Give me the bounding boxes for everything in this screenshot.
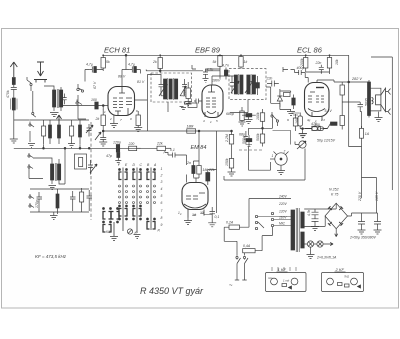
capacitor C28 500p — [242, 135, 252, 147]
wire mains left drop — [224, 227, 237, 256]
band switch wafer numbers — [160, 167, 163, 227]
band switch contacts column2 top — [133, 169, 141, 180]
wire row1 top — [14, 119, 89, 121]
wire FM to grid — [63, 101, 108, 119]
trimmer arrow osc — [90, 164, 97, 173]
resistor R11 on rail — [152, 55, 162, 68]
svg-text:4,7µ: 4,7µ — [86, 63, 93, 67]
svg-text:22k: 22k — [208, 168, 215, 172]
capacitor C23 50u 12/15V — [317, 122, 337, 143]
band switch contacts left column — [103, 208, 119, 232]
output transformer T3 — [365, 80, 374, 118]
svg-text:100k: 100k — [256, 112, 260, 120]
speaker LS1 — [371, 88, 386, 111]
wire AVC long horizontal bus — [14, 147, 157, 149]
svg-text:22n: 22n — [315, 61, 322, 65]
pin labels ECL86 — [307, 118, 326, 123]
capacitor C14 4,7n electrolytic — [222, 64, 229, 80]
capacitor C26 EM84 — [208, 207, 219, 227]
band switch contacts column3 lower — [147, 218, 155, 229]
IFT2 capacitor Ca — [230, 76, 235, 94]
svg-text:220V: 220V — [278, 202, 288, 206]
wire AF line to ECL grid — [249, 119, 289, 170]
connector box 2KF — [322, 273, 364, 292]
ground R27 — [228, 172, 236, 176]
svg-text:1M: 1M — [203, 168, 208, 172]
band switch contacts column1 top — [119, 169, 127, 180]
svg-text:0,1: 0,1 — [170, 148, 175, 152]
wire rail stub left — [84, 70, 86, 82]
svg-text:2: 2 — [283, 150, 286, 154]
svg-text:1 mb: 1 mb — [283, 279, 290, 283]
svg-text:3: 3 — [161, 180, 163, 184]
capacitor C17 detector — [292, 95, 295, 110]
capacitor C34 EBF grid — [194, 99, 202, 104]
capacitor C8 4,7u — [85, 63, 103, 73]
svg-text:2k: 2k — [152, 60, 157, 64]
resistor R27 150k — [225, 145, 234, 173]
svg-text:~: ~ — [229, 283, 233, 289]
diode D1 detector — [277, 91, 282, 107]
wire ECL86 anode — [317, 80, 369, 83]
pin labels EBF89 — [203, 119, 218, 124]
svg-text:0,4A: 0,4A — [243, 244, 251, 248]
connector box 1KF — [266, 273, 307, 292]
oscillator can box R4 — [75, 154, 87, 169]
ground R8 — [134, 128, 142, 132]
resistor R18 — [340, 103, 344, 130]
capacitor C16 22n — [266, 77, 279, 87]
capacitor C19 400p coupling — [291, 66, 309, 83]
wire C18 link — [306, 72, 330, 74]
capacitor C33 50u b — [374, 213, 382, 234]
capacitor C31 HV filter b — [312, 219, 319, 227]
trimmer gang arrow top — [95, 132, 101, 140]
wire heater segment — [166, 147, 172, 149]
capacitor C5 170p — [35, 192, 42, 212]
capacitor C35 FM — [62, 94, 66, 105]
resistor R24 100k — [256, 109, 265, 128]
wire EBF anode to IFT2 — [212, 75, 236, 85]
svg-text:2 h: 2 h — [320, 118, 326, 122]
svg-text:6: 6 — [161, 201, 163, 205]
svg-text:22n: 22n — [266, 77, 273, 81]
svg-text:170p: 170p — [35, 200, 39, 208]
svg-text:18M: 18M — [187, 125, 194, 129]
svg-text:2,2M: 2,2M — [225, 134, 229, 143]
potentiometer P1 volume — [280, 91, 291, 97]
band switch stem column2 — [136, 168, 138, 234]
oscillator switch contact S3 — [28, 153, 33, 158]
detector line vertical — [266, 87, 271, 103]
resistor R13 on rail EBF — [239, 55, 248, 68]
capacitor C18 22n — [315, 61, 324, 74]
svg-text:N 252: N 252 — [329, 188, 339, 192]
svg-text:500k: 500k — [256, 133, 260, 141]
wire top B+ rail — [103, 55, 362, 146]
IFT2 coil b — [247, 74, 256, 95]
svg-text:5k: 5k — [213, 60, 217, 64]
capacitor C15 680p — [237, 110, 243, 112]
contact K2 — [76, 100, 82, 105]
wire lamps — [304, 243, 333, 246]
wire detector joins — [271, 89, 291, 110]
tube ECL86 U3 — [305, 83, 330, 121]
svg-text:185 V: 185 V — [375, 191, 379, 201]
capacitor C2 grid 120p — [91, 98, 98, 109]
svg-text:2×6,3V/0,1A: 2×6,3V/0,1A — [316, 256, 337, 260]
svg-text:220: 220 — [128, 142, 135, 146]
svg-text:81 V: 81 V — [137, 80, 145, 84]
svg-text:7kΩ: 7kΩ — [344, 275, 350, 279]
wire to output transformer secondary — [360, 112, 361, 129]
speaker terminal b — [386, 109, 391, 115]
row3 box switch contact S5 — [29, 194, 34, 199]
fuse F3 0,4A — [243, 236, 262, 256]
band switch stem column3 — [150, 168, 152, 231]
svg-text:2 KF: 2 KF — [335, 267, 345, 272]
band switch stem column1 — [122, 168, 124, 232]
lamp E2 — [317, 241, 323, 247]
svg-text:14: 14 — [193, 213, 197, 217]
capacitor C12 47n — [106, 153, 121, 165]
tube EM84 U4 — [182, 183, 208, 218]
ground detector — [287, 109, 295, 116]
tuning row1 box left : switch contact S2 — [29, 122, 34, 143]
mains plug — [229, 270, 247, 290]
resistor R30 100k grid EBF — [183, 82, 191, 102]
IFT1 capacitor Ca — [159, 79, 166, 96]
IFT2 coil a — [234, 74, 243, 95]
dash link volume — [239, 149, 263, 151]
resistor R10 22k — [156, 142, 166, 151]
IFT1 coil b — [174, 78, 178, 100]
capacitor C6 — [70, 191, 76, 211]
wire HV to bridge — [304, 203, 336, 226]
ground lamps — [307, 247, 315, 258]
capacitor C21 feedback — [342, 102, 363, 112]
resistor R6 on rail — [101, 55, 110, 71]
band switch column2 ground — [134, 235, 141, 239]
FM band switch contact S1a — [27, 77, 36, 117]
speaker terminal a — [386, 89, 391, 95]
svg-text:500p: 500p — [242, 136, 246, 144]
band switch rotor mark — [127, 229, 137, 235]
wire row3 top and bottom — [30, 189, 89, 212]
resistor R8 screen — [136, 111, 140, 128]
capacitor C32 50u a — [358, 213, 366, 234]
resistor R15 200k on rail — [300, 55, 308, 72]
FM input transformer T1 — [44, 86, 63, 111]
resistor R3 — [70, 120, 74, 144]
svg-text:ECL 86: ECL 86 — [297, 46, 323, 55]
capacitor C11 120p on AVC bus — [113, 141, 121, 153]
IFT1 coil a — [164, 78, 173, 100]
svg-text:KF = 473,5 kHz: KF = 473,5 kHz — [35, 254, 67, 259]
capacitor C29 68p — [239, 131, 248, 145]
ground left column — [10, 139, 18, 143]
svg-text:100: 100 — [91, 98, 97, 102]
IFT2 trimmer arrows — [231, 81, 239, 93]
band switch wafer letters — [118, 163, 157, 167]
svg-text:240V: 240V — [278, 195, 288, 199]
ground HV filter — [311, 227, 319, 231]
svg-text:mic: mic — [268, 276, 273, 280]
IF transformer IFT2 dashed box — [229, 69, 266, 100]
svg-text:180V: 180V — [212, 79, 221, 83]
lamp E1 — [307, 241, 313, 247]
svg-text:120p: 120p — [113, 141, 121, 145]
ground R19 — [299, 129, 307, 138]
resistor R21 18M — [187, 125, 196, 134]
tube ECH81 U1 — [108, 87, 135, 116]
resistor R12 on rail EBF — [213, 56, 223, 71]
svg-text:88 V: 88 V — [118, 75, 126, 79]
resistor R9 220 — [128, 142, 141, 151]
svg-text:4g: 4g — [307, 118, 311, 122]
capacitor C13 4,7n — [203, 68, 220, 79]
resistor R22 1M — [197, 161, 208, 178]
coil L6 — [56, 189, 59, 214]
wire AF return bus — [224, 149, 305, 181]
svg-text:0,1: 0,1 — [215, 215, 220, 219]
ground C27 — [245, 117, 253, 124]
tone switch S7 — [271, 112, 279, 126]
IFT2 capacitor Cb — [256, 76, 260, 95]
svg-text:2: 2 — [160, 174, 163, 178]
svg-text:8: 8 — [161, 216, 163, 220]
svg-text:67 V: 67 V — [93, 81, 97, 89]
band switch contacts column3 top — [147, 169, 155, 180]
svg-text:2: 2 — [109, 117, 112, 121]
svg-text:220 V: 220 V — [358, 191, 362, 202]
svg-text:470k: 470k — [6, 90, 10, 98]
svg-text:680p: 680p — [226, 112, 234, 116]
resistor R19 cathode ECL — [295, 113, 302, 129]
bridge rectifier D2-D5 — [325, 203, 348, 229]
fuse F1 1A — [360, 126, 370, 198]
row3 switch contact S6 — [29, 203, 34, 208]
ground IFT1 — [180, 104, 189, 110]
ground R30 — [185, 102, 193, 106]
ground speaker — [375, 112, 383, 122]
band switch left stem ground — [110, 222, 118, 241]
svg-text:4,7n: 4,7n — [222, 64, 229, 68]
svg-text:68p: 68p — [239, 133, 245, 137]
wire 185V drop — [362, 178, 377, 214]
ground jack J1 — [299, 134, 307, 138]
svg-text:2k: 2k — [95, 117, 100, 121]
antenna AM A1 — [10, 62, 17, 77]
svg-text:1k: 1k — [244, 60, 248, 64]
IF transformer IFT1 dashed box — [151, 73, 192, 102]
capacitor C30 HV filter a — [307, 209, 319, 219]
svg-text:ECH 81: ECH 81 — [104, 46, 130, 55]
junction dots rail — [102, 54, 330, 56]
wire IFT1 top to rail — [146, 69, 203, 74]
svg-text:12: 12 — [201, 211, 205, 215]
capacitor C3 trimmer — [86, 124, 93, 137]
svg-text:1A: 1A — [365, 132, 370, 136]
oscillator coil T2 — [33, 148, 65, 184]
wire J2 to tone — [273, 131, 291, 145]
svg-text:282 V: 282 V — [351, 77, 362, 81]
svg-text:EBF 89: EBF 89 — [195, 46, 221, 55]
resistor R14 cathode EBF — [239, 107, 246, 126]
voltage selector contacts — [249, 199, 291, 236]
resistor R20a cathode bias — [300, 123, 327, 131]
wire screen EBF — [192, 65, 220, 79]
resistor R25 1M tone — [292, 113, 300, 131]
svg-text:400p: 400p — [297, 66, 305, 70]
ground row1 b — [68, 144, 75, 148]
svg-text:MIC: MIC — [279, 222, 286, 226]
pickup jack J1 — [295, 141, 306, 149]
svg-text:10k: 10k — [335, 59, 339, 65]
svg-text:50µ 12/15V: 50µ 12/15V — [317, 139, 336, 143]
coil L2 ferrite — [11, 98, 18, 139]
ground FM transformer — [50, 113, 59, 117]
coil L3 — [49, 120, 52, 144]
wire right-edge vertical net — [371, 57, 392, 190]
transformer tap labels — [278, 195, 288, 226]
wire IFT2 bottom out — [230, 100, 248, 113]
capacitor C9 4,7u — [126, 63, 140, 73]
svg-text:47p: 47p — [106, 154, 112, 158]
capacitor C20 grid block — [283, 67, 288, 72]
wire ECH81 anode to IFT1 — [135, 75, 162, 132]
ground row1 a — [28, 144, 35, 148]
pin labels ECH81 — [104, 109, 138, 122]
IFT1 trimmer arrows — [159, 84, 167, 96]
ground J2 — [277, 169, 285, 175]
power transformer T4 — [291, 208, 304, 252]
wire EM84 pin lines — [204, 213, 212, 216]
svg-text:120V: 120V — [279, 210, 288, 214]
svg-text:7: 7 — [161, 209, 163, 213]
band switch contacts column1 lower — [119, 205, 127, 219]
wire EM84 grid — [180, 155, 187, 183]
svg-text:22k: 22k — [156, 142, 163, 146]
ground tube ECH81 — [110, 116, 118, 128]
resistor R28 2,2M — [225, 131, 234, 144]
ground C13 — [203, 79, 209, 83]
ground row3 — [50, 212, 58, 220]
resistor R17 — [340, 82, 344, 103]
capacitor C25 2n — [186, 161, 195, 178]
capacitor C22 50u cathode — [327, 123, 331, 129]
wire EM84 anode top — [193, 131, 199, 183]
svg-text:2n: 2n — [186, 161, 191, 165]
svg-text:R 4350 VT gyár: R 4350 VT gyár — [140, 286, 204, 296]
coil R23 target — [206, 168, 217, 185]
capacitor C1 — [11, 88, 17, 99]
ground oscillator coil — [49, 186, 57, 190]
coil L1 antenna choke — [12, 78, 15, 88]
svg-text:K 75: K 75 — [331, 193, 338, 197]
trimmer arrow L4 — [57, 115, 62, 144]
fuse F2 0,2A — [224, 221, 249, 230]
capacitor C7 — [87, 190, 93, 211]
resistor R26 500k — [256, 128, 265, 146]
capacitor C27 AF coupling — [242, 114, 256, 119]
ground EM84 — [184, 221, 192, 225]
wire EM84 cathode — [187, 218, 189, 221]
svg-text:1 KF: 1 KF — [278, 267, 287, 272]
capacitor C24 0,1 — [164, 148, 181, 158]
resistor R2 — [42, 120, 46, 144]
connector pins above 1KF — [272, 267, 296, 271]
svg-text:K1: K1 — [106, 230, 110, 234]
phono jack J2 — [270, 150, 289, 170]
svg-text:1: 1 — [272, 154, 274, 158]
resistor R7 cathode — [95, 109, 106, 131]
oscillator switch contact S4 — [28, 164, 43, 179]
wire IFT1 secondary out — [168, 102, 192, 112]
resistor R20 470 — [305, 122, 328, 130]
svg-text:110V: 110V — [279, 216, 287, 220]
svg-text:160: 160 — [295, 118, 299, 124]
svg-text:EM 84: EM 84 — [191, 145, 207, 151]
svg-text:4: 4 — [161, 187, 163, 191]
band switch contacts column2 lower — [133, 205, 141, 219]
wire cathode — [102, 106, 104, 110]
capacitor C4 osc — [88, 160, 93, 175]
svg-text:4,7n: 4,7n — [307, 210, 311, 216]
svg-text:5035: 5035 — [365, 98, 369, 106]
mains switch S8 — [236, 256, 248, 269]
svg-text:5k: 5k — [106, 60, 110, 64]
wire bridge output — [335, 213, 378, 237]
capacitor C10 AGC — [99, 131, 107, 146]
resistor R5 — [80, 188, 84, 212]
pin labels EM84 — [180, 211, 205, 217]
dash mechanical link tuning — [90, 122, 92, 220]
resistor R16 1M on rail — [327, 55, 339, 74]
svg-text:4,7µ: 4,7µ — [128, 63, 135, 67]
svg-text:9: 9 — [161, 223, 163, 227]
wire volume bus — [249, 117, 273, 135]
svg-text:5,1V: 5,1V — [325, 109, 333, 113]
tube EBF89 U2 — [202, 85, 223, 118]
wire AGC bus — [103, 131, 232, 213]
antenna FM dipole A2 — [34, 62, 47, 83]
IFT1 capacitor Cb — [181, 79, 188, 96]
svg-text:5: 5 — [161, 194, 163, 198]
resistor R29 IFT1 out — [188, 103, 197, 107]
band switch dot rows middle — [119, 185, 156, 204]
coil L5 — [79, 120, 82, 144]
junction dots bus — [44, 144, 81, 148]
svg-text:0,2A: 0,2A — [226, 221, 234, 225]
svg-text:1: 1 — [161, 167, 163, 171]
wire tube anode to rail — [122, 55, 140, 86]
contact K1 — [77, 84, 84, 101]
svg-text:100k: 100k — [183, 89, 187, 97]
svg-text:2×50µ 350/380V: 2×50µ 350/380V — [349, 236, 377, 240]
svg-text:150k: 150k — [225, 158, 229, 166]
